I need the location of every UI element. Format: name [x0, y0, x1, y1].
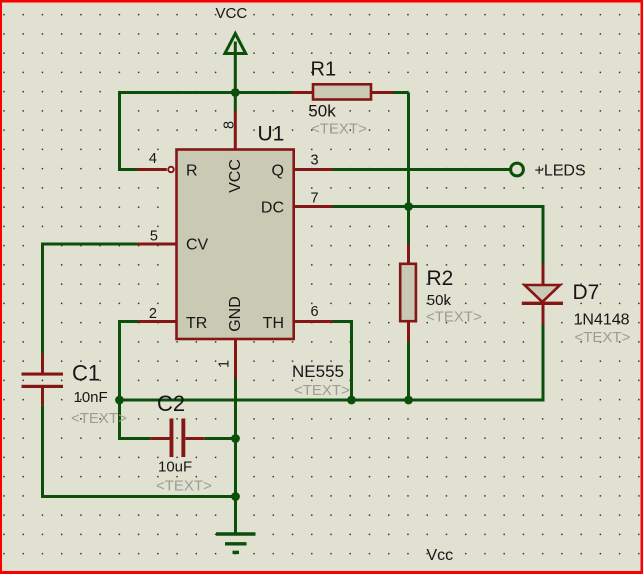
svg-text:GND: GND — [227, 296, 244, 332]
svg-text:<TEXT>: <TEXT> — [294, 382, 350, 399]
svg-text:50k: 50k — [308, 102, 336, 121]
svg-text:5: 5 — [150, 229, 158, 245]
svg-text:<TEXT>: <TEXT> — [156, 478, 212, 495]
svg-text:3: 3 — [311, 153, 319, 169]
svg-text:+LEDS: +LEDS — [535, 163, 586, 180]
svg-text:DC: DC — [261, 200, 284, 217]
svg-text:6: 6 — [311, 304, 319, 320]
svg-text:TH: TH — [263, 315, 284, 332]
svg-text:Vcc: Vcc — [427, 547, 454, 564]
svg-text:C1: C1 — [72, 361, 100, 386]
svg-text:CV: CV — [186, 237, 209, 254]
svg-text:<TEXT>: <TEXT> — [311, 121, 367, 138]
svg-text:R2: R2 — [427, 267, 454, 290]
svg-text:1N4148: 1N4148 — [574, 312, 630, 329]
svg-text:<TEXT>: <TEXT> — [575, 329, 631, 346]
svg-text:7: 7 — [311, 191, 319, 207]
svg-text:VCC: VCC — [216, 5, 248, 22]
svg-text:10nF: 10nF — [74, 389, 108, 406]
svg-text:1: 1 — [217, 360, 233, 368]
svg-text:8: 8 — [222, 121, 238, 129]
svg-text:U1: U1 — [258, 123, 285, 146]
svg-text:<TEXT>: <TEXT> — [426, 309, 482, 326]
svg-text:R1: R1 — [311, 59, 337, 81]
svg-text:2: 2 — [149, 306, 157, 322]
svg-text:<TEXT>: <TEXT> — [71, 410, 127, 427]
svg-text:D7: D7 — [573, 281, 600, 304]
svg-text:VCC: VCC — [227, 159, 244, 193]
svg-text:R: R — [186, 163, 198, 180]
svg-text:C2: C2 — [157, 391, 185, 416]
svg-text:NE555: NE555 — [292, 362, 344, 381]
svg-text:4: 4 — [149, 151, 157, 167]
svg-text:50k: 50k — [427, 292, 452, 309]
svg-text:TR: TR — [186, 315, 207, 332]
svg-text:10uF: 10uF — [158, 459, 192, 476]
svg-text:Q: Q — [272, 163, 284, 180]
